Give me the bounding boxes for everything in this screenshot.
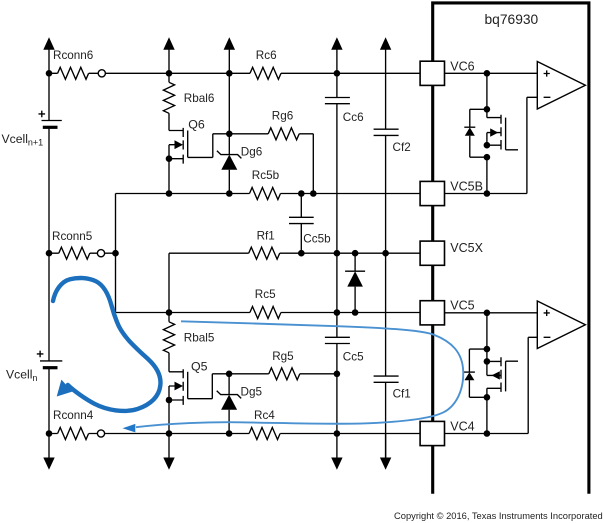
blue sense path line with arrow (123, 321, 464, 432)
svg-text:Cc6: Cc6 (343, 111, 364, 124)
resistor Rf1 (249, 230, 280, 260)
wire: gate node down from top rail (226, 73, 233, 137)
resistor Rbal6 (163, 73, 214, 130)
wire: VC6 to op-amp U1 (444, 70, 537, 77)
resistor Rg5 (229, 350, 337, 380)
wire: VC5B rail (116, 193, 420, 195)
zener diode Dg6 (217, 134, 262, 194)
wire: VC5 to op-amp U2 (444, 310, 537, 317)
svg-text:Rc4: Rc4 (254, 409, 275, 422)
battery Vcell n (6, 351, 62, 384)
svg-text:VC5: VC5 (450, 299, 474, 313)
wire: Q5 source to VC4 rail (169, 371, 232, 434)
capacitor Cc5 (325, 313, 364, 374)
svg-text:bq76930: bq76930 (485, 12, 539, 27)
wire: Q6 source to VC5B rail (168, 159, 170, 194)
wire: VC4 rail (49, 433, 420, 435)
wire: left rail (48, 73, 50, 433)
transistor Q6 (166, 118, 230, 164)
pin VC6 (420, 60, 475, 86)
op-amp U2 (537, 301, 585, 349)
arrows to lower cells (bottom) (43, 434, 391, 470)
arrows to upper cells (top) (43, 37, 391, 73)
svg-text:Rc5b: Rc5b (252, 169, 280, 182)
wire: top rail VC6 net (49, 72, 420, 74)
capacitor Cf1 (374, 253, 411, 458)
pin VC4 (420, 419, 475, 445)
op-amp U1 (537, 62, 585, 110)
resistor Rconn5 (46, 230, 116, 259)
node: VC5B rail dots (166, 190, 317, 197)
pin VC5 (420, 299, 475, 325)
svg-text:Dg6: Dg6 (241, 146, 262, 159)
pin VC5X (420, 241, 484, 265)
wire: bus Rg5 node to VC4 (334, 371, 341, 434)
resistor Rc5b (250, 169, 281, 200)
node: top rail junction dots (46, 70, 341, 77)
node: VC4 rail dots (46, 430, 341, 437)
resistor Rg6 (229, 110, 313, 194)
capacitor Cc6 (bus x=336.9) (325, 73, 364, 253)
svg-text:Q6: Q6 (188, 118, 205, 132)
capacitor Cc5b (289, 194, 331, 254)
resistor Rconn4 (53, 409, 105, 439)
wire: VC5B to op-amp U1 minus input (444, 97, 537, 197)
blue current loop arrow (53, 278, 160, 411)
svg-text:Copyright © 2016, Texas Instru: Copyright © 2016, Texas Instruments Inco… (394, 511, 603, 521)
capacitor Cf2 (374, 73, 411, 253)
wire: VC5 rail (169, 312, 420, 314)
wire: VC5X / Rf1 net (169, 253, 420, 312)
svg-text:Cf1: Cf1 (393, 387, 411, 400)
svg-text:VC6: VC6 (450, 60, 474, 74)
wire: bus VC5X to VC5 (336, 253, 338, 312)
svg-text:Rconn4: Rconn4 (53, 409, 94, 422)
zener diode Dg5 (217, 374, 263, 434)
transistor Q5 (166, 359, 229, 405)
svg-text:VC4: VC4 (450, 419, 474, 433)
copyright notice (394, 511, 603, 521)
svg-text:Rconn5: Rconn5 (52, 230, 93, 243)
svg-text:Rconn6: Rconn6 (53, 49, 93, 62)
svg-text:Cc5: Cc5 (343, 351, 364, 364)
svg-text:Rbal6: Rbal6 (184, 92, 215, 105)
IC bq76930 outline (433, 3, 589, 494)
node: VC5 rail dots (166, 309, 359, 316)
svg-text:Rc5: Rc5 (255, 288, 276, 301)
svg-text:Rc6: Rc6 (256, 49, 277, 62)
pin VC5B (420, 180, 483, 206)
wire: VC4 to op-amp U2 minus input (444, 337, 537, 437)
resistor Rbal5 (163, 313, 214, 372)
svg-text:Cc5b: Cc5b (303, 232, 331, 245)
svg-text:Cf2: Cf2 (393, 141, 411, 154)
svg-text:Dg5: Dg5 (241, 386, 263, 399)
svg-text:VC5X: VC5X (450, 241, 483, 255)
svg-text:VC5B: VC5B (450, 180, 483, 194)
svg-text:Q5: Q5 (191, 359, 208, 373)
battery Vcell n+1 (2, 111, 62, 148)
wire: left jog VC5B to VC5 (112, 194, 169, 313)
resistor Rconn6 (53, 49, 105, 79)
svg-text:Rbal5: Rbal5 (184, 332, 215, 345)
internal FET M6 with body diode (464, 73, 518, 193)
node: VC5X dots (298, 250, 389, 257)
internal FET M5 with body diode (464, 313, 518, 434)
svg-text:Rg5: Rg5 (272, 350, 294, 363)
diode VC5X to VC5 (345, 253, 365, 312)
resistor Rc6 (250, 49, 281, 79)
svg-text:Rg6: Rg6 (272, 110, 293, 123)
resistor Rc5 (250, 288, 281, 318)
svg-text:Rf1: Rf1 (257, 230, 275, 243)
resistor Rc4 (249, 409, 280, 439)
